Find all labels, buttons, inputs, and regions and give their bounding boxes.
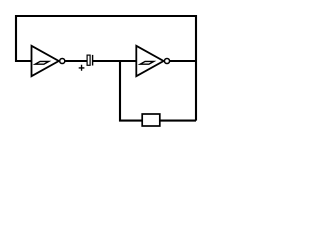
wire: right vertical (U2 output net down to resistor loop) <box>195 15 197 121</box>
U1 output inversion bubble <box>60 58 65 63</box>
U2 hysteresis symbol <box>140 61 154 64</box>
C1 polarity + sign <box>79 65 85 71</box>
wire: bottom left segment and riser (R1 to node at U2 input) <box>120 61 142 121</box>
wire: capacitor C1 to U2 input (through node at x=120) <box>93 60 137 62</box>
resistor R1 (box style) <box>142 114 160 126</box>
wire: U1 output to capacitor C1 <box>65 60 87 62</box>
U2 triangle body <box>136 46 163 76</box>
U1 triangle body <box>32 46 59 76</box>
op-amp / Schmitt-trigger inverter U1 <box>32 46 65 76</box>
U1 hysteresis symbol <box>35 61 49 64</box>
wire: bottom right segment (right vertical to R1) <box>160 120 196 122</box>
C1 positive plate (hollow box) <box>87 55 90 65</box>
capacitor C1 (polarized) <box>79 55 93 71</box>
C1 negative plate (bar) <box>92 55 94 66</box>
op-amp / Schmitt-trigger inverter U2 <box>136 46 169 76</box>
wire: U1 input stub, left vertical and top feedback run <box>16 16 196 61</box>
U2 output inversion bubble <box>164 58 169 63</box>
wire: U2 output to right vertical <box>170 60 196 62</box>
